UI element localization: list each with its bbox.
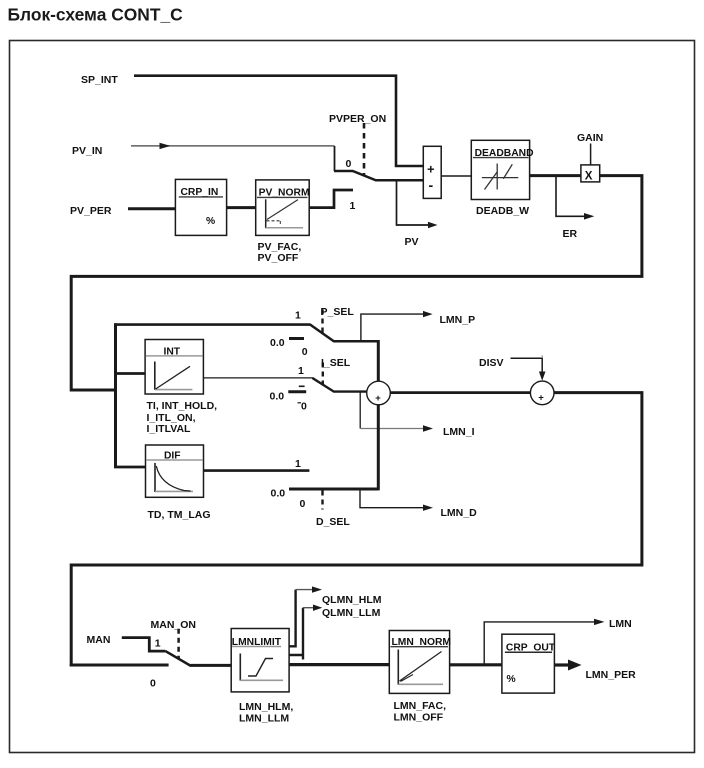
svg-text:P_SEL: P_SEL: [321, 306, 355, 318]
wire summing circle 1 to circle 2: [390, 391, 530, 394]
svg-text:PVPER_ON: PVPER_ON: [329, 113, 386, 125]
wire LMN_NORM to CRP_OUT: [450, 663, 502, 666]
svg-text:1: 1: [155, 637, 161, 649]
wire DEADBAND to X multiplier: [530, 174, 581, 177]
block LMNLIMIT: [231, 629, 289, 692]
wire LMN_D branch with arrow: [360, 489, 433, 511]
block CRP_IN: [175, 179, 226, 235]
svg-text:QLMN_HLM: QLMN_HLM: [322, 594, 382, 606]
contact 0 stub (P_SEL): [289, 337, 304, 340]
wire bus to DIF input: [114, 466, 146, 469]
summer block +/-: [423, 146, 441, 198]
wire PV_NORM to switch contact 1: [309, 190, 353, 208]
svg-text:LMN_OFF: LMN_OFF: [394, 712, 444, 724]
svg-text:D_SEL: D_SEL: [316, 516, 350, 528]
wire PV_PER to CRP_IN: [128, 207, 175, 210]
wire summer to DEADBAND: [441, 175, 471, 177]
summing circle 2: [530, 381, 554, 405]
wire QLMN_HLM branch with arrow: [289, 586, 322, 646]
svg-text:TI, INT_HOLD,: TI, INT_HOLD,: [147, 400, 218, 412]
wire MAN to switch contact 1: [122, 638, 166, 652]
svg-text:1: 1: [295, 310, 301, 322]
svg-text:%: %: [206, 216, 215, 227]
svg-text:I_SEL: I_SEL: [321, 357, 351, 369]
svg-text:%: %: [507, 674, 516, 685]
svg-text:LMN_LLM: LMN_LLM: [239, 713, 289, 725]
wire bus to INT input: [114, 372, 145, 375]
svg-text:+: +: [538, 392, 544, 403]
wire P path down to summing circle: [377, 340, 380, 382]
svg-text:+: +: [427, 162, 435, 177]
svg-text:0: 0: [300, 498, 306, 510]
svg-text:DISV: DISV: [479, 357, 504, 369]
bus vertical to P I D: [114, 323, 117, 468]
svg-text:0.0: 0.0: [270, 391, 285, 403]
label 0 (I_SEL): [298, 401, 308, 413]
switch D_SEL dashed actuator: [321, 491, 323, 510]
svg-text:Блок-схема CONT_C: Блок-схема CONT_C: [8, 4, 184, 24]
switch P_SEL arm and output: [310, 325, 378, 342]
wire PV branch with arrow: [397, 180, 438, 228]
block DIF: [146, 445, 204, 497]
multiplier X box: [581, 165, 600, 182]
svg-text:PV: PV: [405, 236, 419, 248]
switch PVPER_ON dashed actuator: [363, 123, 366, 176]
wire LMN_I branch with arrow: [360, 392, 433, 432]
svg-text:ER: ER: [563, 228, 578, 240]
svg-text:LMN_P: LMN_P: [440, 314, 476, 326]
svg-text:-: -: [429, 177, 434, 193]
switch MAN_ON arm: [165, 651, 191, 666]
svg-text:1: 1: [298, 365, 304, 377]
svg-text:0.0: 0.0: [270, 337, 285, 349]
block PV_NORM: [256, 180, 310, 236]
svg-text:0: 0: [346, 158, 352, 170]
svg-text:0.0: 0.0: [271, 488, 286, 500]
block LMN_NORM: [389, 631, 451, 694]
switch PVPER_ON arm and output wire: [353, 171, 424, 180]
switch I_SEL dashed actuator: [322, 363, 324, 388]
svg-text:SP_INT: SP_INT: [81, 74, 118, 86]
wire X output feedback to PID bus: [71, 176, 642, 390]
svg-text:LMN_PER: LMN_PER: [586, 669, 637, 681]
wire PV_IN to switch contact 0: [131, 143, 353, 171]
block INT: [145, 340, 203, 395]
wire INT output to I_SEL: [203, 377, 313, 379]
svg-text:PV_OFF: PV_OFF: [258, 252, 299, 264]
wire circle 2 output down to manual switch section: [71, 393, 642, 667]
svg-text:MAN: MAN: [87, 634, 111, 646]
block DEADBAND: [471, 140, 533, 199]
svg-text:GAIN: GAIN: [577, 132, 603, 144]
wire LMN_P branch with arrow: [361, 311, 433, 340]
svg-text:1: 1: [350, 200, 356, 212]
svg-text:MAN_ON: MAN_ON: [151, 619, 197, 631]
svg-text:LMN: LMN: [609, 618, 632, 630]
block CRP_OUT: [502, 634, 556, 693]
svg-text:LMN_HLM,: LMN_HLM,: [239, 701, 293, 713]
wire D_SEL output to summing circle 1: [289, 404, 378, 490]
summing circle 1: [367, 381, 391, 405]
wire CRP_IN to PV_NORM: [227, 206, 256, 209]
switch MAN_ON dashed actuator: [177, 629, 180, 660]
svg-text:LMN_FAC,: LMN_FAC,: [394, 700, 447, 712]
wire DISV with down arrow into circle 2: [511, 355, 546, 380]
switch I_SEL arm and output: [312, 378, 367, 392]
wire bus to P_SEL contact 1: [114, 323, 311, 326]
wire auto path to LMNLIMIT: [70, 664, 169, 667]
svg-text:I_ITLVAL: I_ITLVAL: [147, 423, 192, 435]
svg-text:PV_PER: PV_PER: [70, 205, 112, 217]
wire LMN branch with arrow: [484, 619, 604, 664]
svg-text:TD, TM_LAG: TD, TM_LAG: [148, 509, 211, 521]
wire LMN_PER output with solid arrow: [554, 660, 581, 671]
wire SP_INT to summer + input: [134, 76, 423, 166]
svg-text:DEADB_W: DEADB_W: [476, 205, 529, 217]
wire GAIN lead: [590, 144, 592, 165]
svg-text:X: X: [585, 170, 593, 182]
switch P_SEL dashed actuator: [321, 310, 323, 334]
svg-text:+: +: [375, 393, 381, 404]
svg-text:0: 0: [301, 401, 307, 413]
wire ER branch with arrow: [556, 177, 594, 220]
svg-text:1: 1: [295, 458, 301, 470]
svg-text:LMN_I: LMN_I: [443, 426, 475, 438]
svg-text:QLMN_LLM: QLMN_LLM: [322, 607, 381, 619]
wire QLMN_LLM branch with arrow: [289, 605, 322, 660]
svg-text:0: 0: [302, 346, 308, 358]
svg-text:PV_IN: PV_IN: [72, 145, 102, 157]
wire LMNLIMIT to LMN_NORM: [289, 663, 389, 666]
wire DIF output to D_SEL contact 1: [204, 469, 310, 472]
svg-text:0: 0: [150, 678, 156, 690]
svg-text:LMN_D: LMN_D: [441, 507, 478, 519]
contact 0 stub (I_SEL): [288, 386, 306, 392]
